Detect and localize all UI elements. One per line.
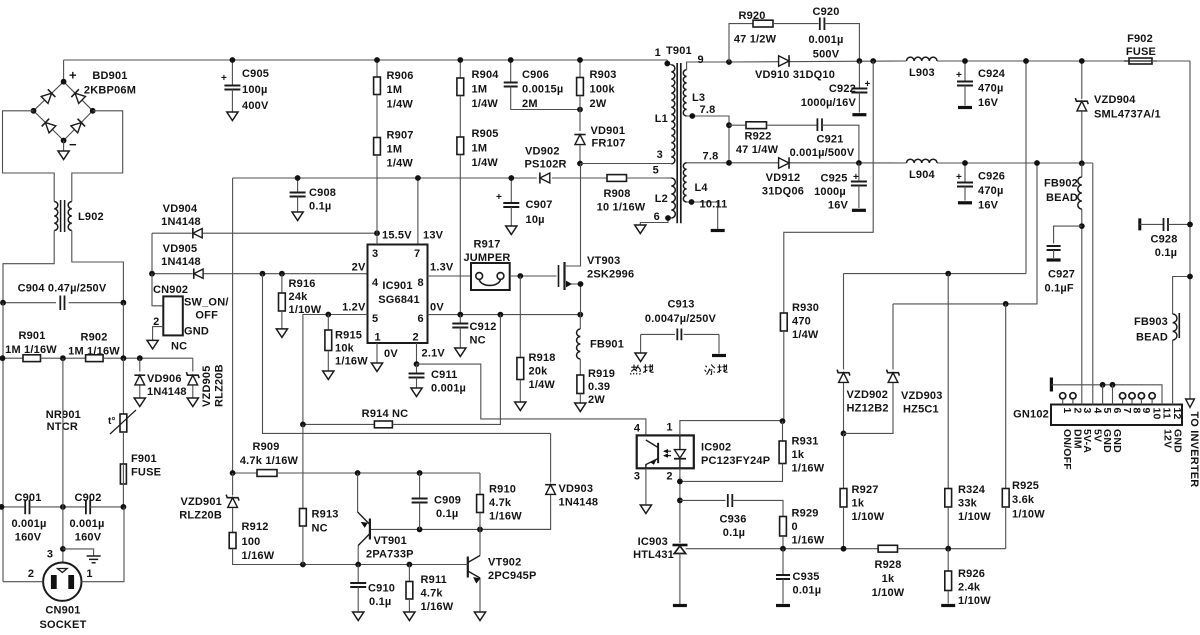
svg-text:15.5V: 15.5V bbox=[382, 230, 412, 242]
svg-text:1000µ/16V: 1000µ/16V bbox=[801, 97, 857, 109]
svg-text:R928: R928 bbox=[874, 559, 901, 571]
svg-text:JUMPER: JUMPER bbox=[463, 252, 510, 264]
resistor R912 100 1/16W bbox=[229, 533, 236, 549]
svg-text:1M 1/16W: 1M 1/16W bbox=[5, 344, 57, 356]
svg-text:C920: C920 bbox=[812, 6, 839, 18]
zener VZD904 SML4737A/1 bbox=[1081, 61, 1083, 99]
svg-text:C904 0.47µ/250V: C904 0.47µ/250V bbox=[18, 283, 107, 295]
svg-text:OFF: OFF bbox=[195, 310, 218, 322]
capacitor C909 0.1u bbox=[419, 473, 421, 499]
svg-text:8: 8 bbox=[418, 277, 424, 289]
resistor R928 1k 1/10W bbox=[878, 545, 897, 552]
wire: pin 3 to 15.5V node bbox=[376, 233, 378, 244]
svg-text:SW_ON/: SW_ON/ bbox=[184, 297, 229, 309]
svg-text:+: + bbox=[956, 172, 962, 183]
svg-text:10µ: 10µ bbox=[526, 214, 545, 226]
snubber R920 47 1/2W bbox=[729, 24, 753, 62]
svg-text:3: 3 bbox=[634, 471, 640, 483]
svg-text:7.8: 7.8 bbox=[700, 104, 716, 116]
ground hot (C913 left) bbox=[635, 353, 646, 362]
svg-text:1/16W: 1/16W bbox=[335, 356, 368, 368]
svg-text:VZD903: VZD903 bbox=[901, 390, 943, 402]
svg-text:R927: R927 bbox=[852, 484, 879, 496]
svg-text:R926: R926 bbox=[958, 568, 985, 580]
svg-text:2: 2 bbox=[413, 332, 419, 344]
svg-text:3: 3 bbox=[657, 149, 663, 161]
svg-text:R910: R910 bbox=[489, 484, 516, 496]
resistor R908 10 1/16W bbox=[607, 175, 627, 182]
wire: to T901 pin 3 bbox=[580, 163, 671, 165]
svg-text:1k: 1k bbox=[882, 573, 895, 585]
svg-text:R908: R908 bbox=[603, 188, 630, 200]
svg-text:0.1µ: 0.1µ bbox=[1155, 247, 1177, 259]
svg-text:7.8: 7.8 bbox=[703, 151, 719, 163]
resistor R926 2.4k 1/10W bbox=[947, 549, 949, 571]
wire: L2 pin6 to ground bbox=[640, 218, 671, 225]
wire: FB path pin2 to IC902 pin4 bbox=[417, 364, 646, 435]
wire: left edge down bbox=[2, 303, 4, 582]
winding L1 primary bbox=[667, 60, 671, 65]
capacitor C925 1000u 16V bbox=[858, 163, 860, 182]
svg-text:160V: 160V bbox=[15, 532, 42, 544]
svg-text:470µ: 470µ bbox=[978, 83, 1004, 95]
ground (C905) bbox=[227, 112, 238, 121]
resistor R918 20k 1/4W bbox=[519, 276, 521, 358]
svg-text:0V: 0V bbox=[430, 302, 444, 314]
svg-text:1/16W: 1/16W bbox=[489, 511, 522, 523]
svg-text:VD910 31DQ10: VD910 31DQ10 bbox=[755, 69, 835, 81]
earth ground at CN901 pin 3 bbox=[63, 549, 94, 556]
svg-text:VD902: VD902 bbox=[525, 146, 560, 158]
svg-text:4: 4 bbox=[634, 423, 641, 435]
svg-text:L902: L902 bbox=[78, 211, 104, 223]
zener VZD905 RLZ20B bbox=[192, 358, 194, 371]
capacitor C913 0.0047u/250V bbox=[641, 333, 675, 335]
svg-text:FB903: FB903 bbox=[1134, 316, 1168, 328]
svg-text:10k: 10k bbox=[335, 343, 355, 355]
resistor R903 100k 2W bbox=[579, 60, 581, 78]
svg-text:R919: R919 bbox=[588, 368, 615, 380]
svg-text:0.39: 0.39 bbox=[588, 381, 610, 393]
svg-text:6: 6 bbox=[654, 211, 660, 223]
capacitor C907 10u bbox=[510, 178, 512, 203]
capacitor C921 0.001u/500V bbox=[817, 118, 822, 131]
winding L3 secondary bbox=[683, 70, 686, 116]
svg-text:5V-A: 5V-A bbox=[1081, 429, 1093, 453]
svg-text:GND: GND bbox=[1111, 429, 1123, 453]
wire: 5V branch row bbox=[1006, 163, 1037, 304]
resistor R902 1M 1/16W bbox=[41, 357, 86, 359]
svg-text:2KBP06M: 2KBP06M bbox=[84, 85, 136, 97]
svg-text:L1: L1 bbox=[655, 113, 668, 125]
svg-text:SOCKET: SOCKET bbox=[39, 619, 86, 631]
svg-text:0.001µ: 0.001µ bbox=[431, 383, 466, 395]
wire: pin4 2V row mid verticals bbox=[263, 274, 551, 434]
svg-text:160V: 160V bbox=[75, 532, 102, 544]
svg-text:ON/OFF: ON/OFF bbox=[1061, 429, 1073, 470]
svg-text:IC903: IC903 bbox=[638, 536, 668, 548]
resistor R913 NC bbox=[302, 424, 304, 508]
transistor VT902 2PC945P bbox=[479, 529, 481, 555]
wire: L902 right out bbox=[72, 231, 124, 303]
transistor VT901 2PA733P bbox=[357, 473, 359, 512]
svg-text:2W: 2W bbox=[590, 98, 607, 110]
wire: L4 bottom 10.11 to cold ground bbox=[687, 202, 718, 231]
capacitor C902 0.001u 160V bbox=[30, 506, 86, 508]
wire: 12V rail bbox=[729, 61, 907, 62]
wire: 5V branch to VZD903 bbox=[893, 303, 1006, 305]
winding L2 aux bbox=[671, 178, 675, 218]
svg-text:470: 470 bbox=[792, 316, 811, 328]
svg-text:4.7k 1/16W: 4.7k 1/16W bbox=[240, 455, 299, 467]
svg-text:FUSE: FUSE bbox=[1126, 46, 1156, 58]
svg-text:RLZ20B: RLZ20B bbox=[179, 510, 222, 522]
svg-text:4: 4 bbox=[372, 277, 379, 289]
arrow to inverter bbox=[1186, 399, 1195, 407]
resistor R909 4.7k 1/16W bbox=[233, 472, 257, 474]
svg-text:2PC945P: 2PC945P bbox=[488, 570, 537, 582]
inductor L904 bbox=[907, 159, 938, 163]
svg-text:33k: 33k bbox=[958, 498, 978, 510]
svg-text:IC902: IC902 bbox=[701, 442, 731, 454]
resistor R906 1M 1/4W bbox=[376, 60, 378, 77]
svg-text:1: 1 bbox=[655, 47, 661, 59]
capacitor C901 0.001u 160V bbox=[2, 506, 26, 508]
svg-text:24k: 24k bbox=[289, 291, 309, 303]
svg-text:VD912: VD912 bbox=[766, 172, 801, 184]
svg-text:BEAD: BEAD bbox=[1136, 332, 1168, 344]
capacitor C906 0.0015u 2M bbox=[510, 60, 512, 83]
svg-text:1N4148: 1N4148 bbox=[161, 256, 201, 268]
svg-text:1/4W: 1/4W bbox=[792, 329, 819, 341]
svg-text:0.01µ: 0.01µ bbox=[793, 585, 822, 597]
svg-text:2M: 2M bbox=[522, 98, 538, 110]
svg-text:R903: R903 bbox=[590, 69, 617, 81]
svg-text:1/4W: 1/4W bbox=[387, 99, 414, 111]
svg-text:500V: 500V bbox=[813, 49, 840, 61]
svg-text:20k: 20k bbox=[529, 366, 549, 378]
svg-text:0.1µ: 0.1µ bbox=[369, 596, 391, 608]
svg-text:2PA733P: 2PA733P bbox=[366, 549, 414, 561]
wire: VD904 left to VD905 row bbox=[151, 233, 153, 274]
svg-text:16V: 16V bbox=[978, 97, 999, 109]
diode VD912 31DQ06 bbox=[779, 157, 789, 169]
resistor R910 4.7k 1/16W bbox=[479, 473, 481, 495]
svg-text:NC: NC bbox=[470, 335, 486, 347]
svg-text:2V: 2V bbox=[352, 262, 366, 274]
svg-text:C911: C911 bbox=[431, 369, 458, 381]
resistor R907 1M 1/4W bbox=[376, 95, 378, 138]
svg-text:6: 6 bbox=[418, 313, 424, 325]
wire: 13V pin7 column bbox=[417, 178, 419, 245]
svg-text:NTCR: NTCR bbox=[47, 421, 78, 433]
svg-text:RLZ20B: RLZ20B bbox=[214, 364, 226, 407]
wire: L902 left out bbox=[3, 231, 54, 303]
svg-text:R920: R920 bbox=[738, 10, 765, 22]
svg-text:47 1/2W: 47 1/2W bbox=[734, 34, 777, 46]
wire: IC902 pin1 to R931 node bbox=[680, 421, 783, 436]
wire: jumper out to gate bbox=[510, 275, 557, 277]
ferrite bead FB902 bbox=[1079, 160, 1085, 166]
svg-text:L2: L2 bbox=[655, 193, 668, 205]
capacitor C922 1000u/16V bbox=[858, 61, 860, 89]
svg-text:1M: 1M bbox=[387, 144, 403, 156]
svg-text:BD901: BD901 bbox=[92, 70, 127, 82]
resistor R901 1M 1/16W bbox=[3, 357, 24, 359]
svg-text:C908: C908 bbox=[309, 187, 336, 199]
diode VD905 1N4148 bbox=[152, 273, 192, 275]
svg-text:16V: 16V bbox=[828, 200, 849, 212]
snubber R922 47 1/4W bbox=[729, 124, 746, 126]
capacitor C908 0.1u bbox=[297, 178, 299, 193]
svg-text:10 1/16W: 10 1/16W bbox=[597, 202, 646, 214]
capacitor C905 100u 400V bbox=[231, 60, 233, 86]
svg-text:PC123FY24P: PC123FY24P bbox=[701, 455, 770, 467]
svg-text:16V: 16V bbox=[978, 200, 999, 212]
svg-text:L3: L3 bbox=[692, 92, 705, 104]
svg-text:1/4W: 1/4W bbox=[472, 98, 499, 110]
wire: AC left loop to L902 bbox=[3, 111, 55, 202]
svg-text:1/10W: 1/10W bbox=[852, 511, 885, 523]
svg-text:400V: 400V bbox=[242, 100, 269, 112]
svg-text:+: + bbox=[956, 70, 962, 81]
wire: 12V right edge down bbox=[1189, 61, 1191, 399]
capacitor C920 0.001u 500V bbox=[820, 18, 825, 31]
resistor R925 3.6k 1/10W bbox=[1005, 304, 1007, 489]
svg-text:0.001µ/500V: 0.001µ/500V bbox=[790, 147, 855, 159]
svg-text:10.11: 10.11 bbox=[700, 199, 728, 211]
svg-text:VD905: VD905 bbox=[163, 243, 198, 255]
svg-text:1: 1 bbox=[86, 568, 92, 580]
svg-text:VD906: VD906 bbox=[147, 373, 182, 385]
inductor L903 bbox=[907, 57, 938, 61]
svg-text:1/4W: 1/4W bbox=[387, 158, 414, 170]
svg-text:1: 1 bbox=[1061, 408, 1073, 414]
optocoupler IC902 PC123FY24P bbox=[637, 435, 694, 468]
svg-text:SML4737A/1: SML4737A/1 bbox=[1094, 109, 1161, 121]
wire: CN902 pin2 bbox=[153, 327, 164, 341]
svg-text:0.001µ: 0.001µ bbox=[808, 34, 843, 46]
svg-text:F901: F901 bbox=[131, 453, 157, 465]
svg-text:R925: R925 bbox=[1012, 480, 1039, 492]
transformer T901 core bbox=[677, 63, 681, 223]
svg-text:1/16W: 1/16W bbox=[421, 601, 454, 613]
svg-text:47 1/4W: 47 1/4W bbox=[736, 144, 779, 156]
GN102 NC pin circles bbox=[1060, 393, 1066, 399]
svg-text:1/16W: 1/16W bbox=[792, 463, 825, 475]
svg-text:+: + bbox=[221, 73, 227, 84]
svg-text:R912: R912 bbox=[242, 521, 269, 533]
svg-text:1/10W: 1/10W bbox=[958, 595, 991, 607]
resistor R324 33k 1/10W bbox=[947, 274, 949, 489]
capacitor C928 0.1u bbox=[1138, 218, 1141, 230]
svg-text:VT901: VT901 bbox=[374, 535, 407, 547]
svg-text:+: + bbox=[853, 172, 859, 183]
bridge rectifier BD901 2KBP06M bbox=[34, 82, 93, 141]
svg-text:C906: C906 bbox=[522, 69, 549, 81]
svg-text:R901: R901 bbox=[18, 330, 45, 342]
svg-text:L4: L4 bbox=[695, 182, 709, 194]
svg-text:R916: R916 bbox=[289, 278, 316, 290]
svg-text:R909: R909 bbox=[252, 441, 279, 453]
wire: 13V rail y178 bbox=[233, 177, 537, 179]
svg-text:1k: 1k bbox=[792, 449, 805, 461]
svg-text:3: 3 bbox=[372, 248, 378, 260]
svg-text:FR107: FR107 bbox=[592, 138, 626, 150]
svg-text:C905: C905 bbox=[242, 68, 269, 80]
ferrite bead FB903 bbox=[1173, 277, 1190, 315]
svg-text:R324: R324 bbox=[958, 484, 986, 496]
fuse F901 bbox=[122, 432, 124, 464]
connector GN102 bbox=[1051, 405, 1182, 426]
svg-text:C925: C925 bbox=[820, 173, 847, 185]
svg-text:C910: C910 bbox=[368, 583, 395, 595]
svg-text:PS102R: PS102R bbox=[525, 159, 567, 171]
MOSFET VT903 2SK2996 bbox=[558, 265, 560, 287]
resistor R930 470 1/4W bbox=[780, 313, 787, 331]
svg-text:C921: C921 bbox=[816, 134, 843, 146]
svg-text:C928: C928 bbox=[1150, 234, 1177, 246]
svg-text:2: 2 bbox=[666, 471, 672, 483]
wire: pin 5 row 1.2V bbox=[303, 315, 368, 425]
svg-text:C912: C912 bbox=[470, 321, 497, 333]
svg-text:2: 2 bbox=[28, 568, 34, 580]
ground cold (C913 right) bbox=[712, 354, 726, 357]
svg-text:+: + bbox=[69, 68, 77, 83]
svg-text:R904: R904 bbox=[472, 69, 500, 81]
svg-text:F902: F902 bbox=[1127, 33, 1153, 45]
connector CN902 bbox=[152, 274, 163, 306]
ground (CN902) bbox=[147, 340, 158, 349]
svg-text:1/4W: 1/4W bbox=[472, 157, 499, 169]
svg-text:R930: R930 bbox=[792, 302, 819, 314]
resistor R919 0.39 2W bbox=[577, 375, 584, 394]
svg-text:1M: 1M bbox=[472, 143, 488, 155]
wire: L3 tap 7.8 bbox=[687, 116, 729, 163]
svg-text:VT903: VT903 bbox=[587, 255, 620, 267]
resistor R927 1k 1/10W bbox=[843, 433, 845, 488]
diode VD906 1N4148 bbox=[139, 358, 141, 371]
ground (L2 pin 6) bbox=[635, 225, 646, 234]
svg-text:HZ5C1: HZ5C1 bbox=[903, 404, 939, 416]
svg-text:VT902: VT902 bbox=[488, 557, 521, 569]
svg-text:GND: GND bbox=[184, 326, 209, 338]
wire: 5V rail bbox=[729, 162, 907, 164]
resistor R911 4.7k 1/16W bbox=[408, 565, 410, 582]
svg-text:GND: GND bbox=[1172, 429, 1184, 453]
svg-text:R911: R911 bbox=[421, 574, 448, 586]
svg-text:C924: C924 bbox=[978, 68, 1006, 80]
svg-text:C927: C927 bbox=[1048, 269, 1075, 281]
svg-text:13V: 13V bbox=[423, 230, 444, 242]
svg-text:R914 NC: R914 NC bbox=[362, 408, 409, 420]
svg-text:R913: R913 bbox=[312, 509, 339, 521]
wire: pin6 stub bbox=[1112, 385, 1114, 405]
svg-text:R915: R915 bbox=[335, 330, 362, 342]
svg-text:1/16W: 1/16W bbox=[792, 535, 825, 547]
ground (bridge negative) bbox=[63, 141, 65, 152]
svg-text:C909: C909 bbox=[434, 495, 461, 507]
svg-text:+: + bbox=[865, 79, 871, 90]
svg-text:T901: T901 bbox=[666, 45, 692, 57]
fuse F902 bbox=[1129, 58, 1152, 64]
svg-text:C901: C901 bbox=[14, 492, 41, 504]
svg-text:0.0047µ/250V: 0.0047µ/250V bbox=[645, 313, 717, 325]
svg-text:C935: C935 bbox=[793, 571, 820, 583]
connector CN901 SOCKET bbox=[43, 563, 81, 601]
wire: socket pin2 to left edge bbox=[3, 581, 43, 583]
svg-text:L903: L903 bbox=[909, 67, 935, 79]
svg-text:1.2V: 1.2V bbox=[342, 302, 366, 314]
winding L4 secondary bbox=[683, 163, 686, 202]
svg-text:1000µ: 1000µ bbox=[814, 186, 846, 198]
ferrite bead FB901 bbox=[579, 315, 581, 329]
svg-text:2.1V: 2.1V bbox=[422, 348, 446, 360]
wire: base row to VT902 bbox=[464, 564, 468, 566]
svg-text:FB902: FB902 bbox=[1044, 178, 1078, 190]
svg-text:1M 1/16W: 1M 1/16W bbox=[68, 346, 120, 358]
svg-text:NC: NC bbox=[171, 341, 187, 353]
ground (VT902 emitter) bbox=[474, 612, 485, 621]
svg-text:100k: 100k bbox=[590, 84, 616, 96]
svg-text:1/10W: 1/10W bbox=[1012, 509, 1045, 521]
svg-text:1/10W: 1/10W bbox=[958, 511, 991, 523]
capacitor C926 470u 16V bbox=[964, 163, 966, 183]
capacitor C924 470u 16V bbox=[964, 61, 966, 82]
svg-text:R931: R931 bbox=[792, 436, 819, 448]
svg-text:TO INVERTER: TO INVERTER bbox=[1188, 412, 1200, 488]
capacitor C912 NC bbox=[459, 315, 461, 324]
svg-text:2SK2996: 2SK2996 bbox=[587, 269, 634, 281]
svg-text:0V: 0V bbox=[384, 348, 398, 360]
diode VD902 PS102R bbox=[540, 173, 550, 184]
wire: 12V feed down to R930 bbox=[784, 61, 873, 313]
zener VZD903 HZ5C1 bbox=[892, 304, 894, 370]
wire: IC902 pin3 ground bbox=[645, 468, 647, 505]
wire: pin5 stub bbox=[1102, 385, 1104, 405]
capacitor C904 0.47u/250V bbox=[3, 302, 56, 304]
wire: VT901 base row bbox=[371, 528, 551, 530]
diode VD910 31DQ10 bbox=[779, 55, 789, 67]
svg-text:3.6k: 3.6k bbox=[1012, 494, 1035, 506]
resistor R931 1k 1/16W bbox=[782, 421, 784, 441]
wire: divider mid column bbox=[62, 358, 64, 507]
svg-text:CN901: CN901 bbox=[45, 605, 80, 617]
diode VD903 1N4148 bbox=[550, 433, 552, 482]
svg-text:1N4148: 1N4148 bbox=[147, 386, 187, 398]
capacitor C911 0.001u bbox=[416, 364, 418, 373]
resistor R914 NC bbox=[303, 423, 375, 425]
svg-text:0.001µ: 0.001µ bbox=[11, 518, 46, 530]
svg-text:C907: C907 bbox=[526, 199, 553, 211]
svg-text:0.1µ: 0.1µ bbox=[723, 527, 745, 539]
capacitor C936 0.1u bbox=[680, 499, 726, 501]
svg-text:5: 5 bbox=[653, 165, 659, 177]
svg-text:12: 12 bbox=[1171, 408, 1183, 420]
wire: pin 2 node bbox=[416, 343, 418, 364]
wire: pin4 column 5V bbox=[1092, 163, 1094, 405]
svg-text:9: 9 bbox=[698, 54, 704, 66]
svg-text:R929: R929 bbox=[792, 508, 819, 520]
svg-text:4.7k: 4.7k bbox=[489, 497, 512, 509]
svg-text:FUSE: FUSE bbox=[131, 467, 161, 479]
svg-text:1/10W: 1/10W bbox=[872, 587, 905, 599]
svg-text:11: 11 bbox=[1161, 408, 1173, 420]
svg-text:R902: R902 bbox=[80, 332, 107, 344]
wire: 12V to zener row bbox=[844, 273, 1027, 275]
svg-text:100: 100 bbox=[242, 536, 261, 548]
svg-text:t°: t° bbox=[108, 416, 116, 427]
